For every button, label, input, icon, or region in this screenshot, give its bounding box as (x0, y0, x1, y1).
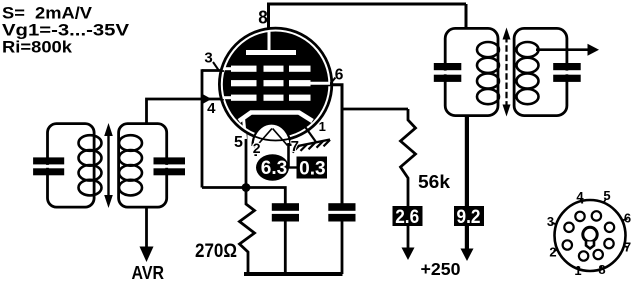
socket pin 5 hole (592, 211, 601, 220)
svg-text:3: 3 (204, 50, 212, 67)
wire grid input from transformer (147, 99, 203, 124)
svg-text:2: 2 (253, 140, 261, 156)
capacitor T2 left (434, 63, 462, 70)
svg-text:0.3: 0.3 (299, 159, 326, 180)
capacitor C1 (272, 203, 299, 211)
T2 frame right (514, 28, 567, 115)
node junction dot (242, 183, 251, 192)
grid row 2 (231, 80, 257, 86)
svg-text:+250: +250 (421, 259, 461, 279)
envelope ring over dome (219, 28, 331, 140)
svg-text:56k: 56k (418, 172, 451, 192)
T1 cap gap erase (43, 165, 52, 168)
svg-text:7: 7 (291, 138, 299, 155)
heater dome (253, 124, 291, 146)
wire pin1 to chassis (305, 126, 317, 142)
heater wire pin7 (287, 143, 290, 168)
svg-text:8: 8 (258, 7, 268, 27)
svg-text:6: 6 (624, 211, 631, 226)
capacitor T2 right (553, 63, 581, 70)
T1 coupling arrow (107, 132, 109, 199)
capacitor C2 (328, 203, 355, 211)
oval 6.3 (256, 154, 289, 180)
svg-text:5: 5 (234, 134, 243, 151)
socket pin 1 hole (579, 251, 588, 260)
arrow output (588, 44, 600, 56)
arrow 9.2 down (461, 249, 474, 262)
envelope ring (219, 28, 331, 140)
wire pin4 stub (202, 98, 224, 101)
pin 6 tick (330, 78, 336, 85)
T2 frame left (445, 28, 498, 115)
anode plate (246, 50, 296, 55)
svg-text:3: 3 (547, 214, 554, 229)
arrow +250 left (402, 248, 415, 261)
IF transformer T2 (right) (434, 28, 581, 117)
T1 frame left (48, 124, 95, 208)
T1 cap gap erase right (162, 165, 171, 168)
T2 cap gap erase right (562, 71, 571, 75)
cathode (239, 113, 313, 122)
socket key (583, 227, 597, 241)
wire pin5 cathode down (245, 133, 248, 188)
resistor 56k (401, 109, 416, 206)
pin 3 tick (213, 62, 219, 70)
svg-text:270Ω: 270Ω (195, 241, 237, 262)
svg-text:4: 4 (576, 189, 584, 204)
IF transformer T1 (left) (33, 123, 185, 208)
wire pin6 to screen node (326, 85, 342, 204)
wire 9.2 down (465, 226, 469, 250)
svg-text:6: 6 (335, 67, 344, 84)
wire anode top rail (269, 3, 467, 6)
grid row 1 (231, 66, 257, 72)
anode lead (268, 30, 271, 51)
socket outline (555, 200, 626, 271)
socket pin 6 hole (605, 223, 614, 232)
heater filament (257, 129, 272, 146)
socket pin 7 hole (604, 239, 613, 248)
wire primary bottom to 9.2 (465, 116, 469, 206)
svg-text:4: 4 (207, 100, 216, 117)
wire C2 bottom (341, 222, 344, 275)
svg-text:2: 2 (549, 245, 556, 260)
cathode lead (244, 118, 246, 139)
wire cathode rail left (202, 186, 246, 189)
tube V1 envelope (219, 28, 331, 146)
T1 primary winding (79, 135, 102, 151)
wire link 6.3 to 0.3 (288, 166, 297, 168)
socket pin 8 hole (594, 250, 603, 259)
arrow AVR (140, 247, 154, 263)
wire C1 bottom (284, 222, 287, 275)
svg-text:2.6: 2.6 (395, 207, 419, 228)
socket pin 3 hole (564, 223, 573, 232)
T2 primary winding (477, 42, 499, 57)
heater wire pin2 (254, 143, 257, 156)
wire 2.6 down (407, 226, 410, 249)
T1 frame right (119, 124, 167, 208)
socket diagram (547, 188, 631, 278)
svg-text:AVR: AVR (132, 263, 165, 283)
T1 secondary winding (119, 135, 142, 151)
wire AVR down (145, 207, 148, 248)
wire pin3 down strap (201, 69, 204, 187)
socket pin 2 hole (563, 240, 572, 249)
resistor 270ohm (240, 188, 255, 275)
capacitor T1 right (154, 157, 186, 164)
svg-text:6.3: 6.3 (261, 158, 288, 179)
wire screen branch to 56k (342, 108, 408, 111)
T2 secondary winding (517, 42, 539, 57)
wire pin8 to top rail (267, 3, 270, 30)
socket pin 4 hole (575, 212, 584, 221)
chassis ground (294, 140, 330, 147)
T2 coupling arrow (505, 36, 507, 108)
grid input arrowhead (202, 94, 212, 104)
box 2.6 (393, 206, 423, 226)
svg-text:Ri=800k: Ri=800k (2, 38, 73, 57)
svg-text:Vg1=-3...-35V: Vg1=-3...-35V (2, 20, 130, 39)
box 9.2 (454, 206, 484, 226)
T2 cap gap erase left (441, 71, 450, 75)
svg-text:1: 1 (574, 263, 581, 278)
wire pin3 stub (202, 69, 224, 72)
svg-text:9.2: 9.2 (457, 207, 481, 228)
capacitor T1 left (33, 157, 64, 164)
wire top rail down to transformer primary (465, 4, 468, 29)
wire cathode rail right to C1 (246, 188, 285, 204)
grid row 3 (231, 95, 257, 101)
wire bottom ground rail (244, 272, 343, 276)
wire output (536, 48, 589, 51)
box 0.3 (297, 157, 328, 179)
